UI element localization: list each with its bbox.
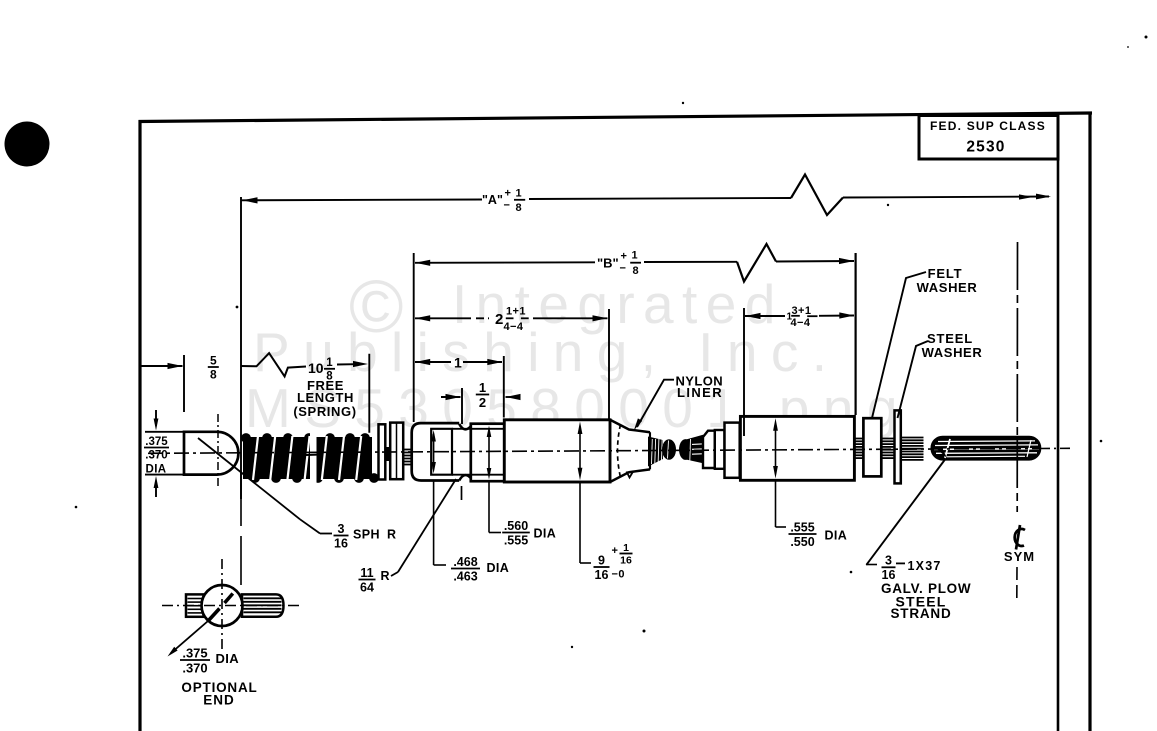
svg-text:.550: .550 — [790, 535, 814, 549]
dim 1-3/4 arrow left — [746, 313, 761, 319]
washer 2 — [390, 423, 403, 480]
leader felt washer — [872, 272, 926, 418]
svg-text:16: 16 — [595, 568, 609, 582]
svg-text:−: − — [504, 200, 510, 212]
svg-text:R: R — [381, 569, 391, 583]
dim B line mid — [644, 261, 737, 263]
label .560/.555 DIA — [489, 532, 501, 534]
svg-text:.560: .560 — [504, 519, 528, 533]
svg-text:STEEL: STEEL — [927, 331, 973, 346]
svg-text:DIA: DIA — [146, 464, 167, 476]
dim 9/16 arrows — [579, 430, 581, 472]
dim A line left — [241, 199, 482, 202]
svg-text:Publishing, Inc.: Publishing, Inc. — [253, 321, 840, 383]
dim .375 arrow top — [155, 410, 157, 426]
dim B extension left — [413, 253, 415, 422]
svg-text:"B": "B" — [597, 256, 619, 271]
punch-hole dot — [5, 122, 50, 167]
svg-text:16: 16 — [334, 536, 348, 550]
svg-text:.463: .463 — [453, 569, 477, 583]
SYM centerline upper — [1016, 242, 1018, 512]
svg-text:LENGTH: LENGTH — [297, 390, 354, 405]
svg-text:+: + — [505, 188, 511, 200]
felt washer — [863, 418, 881, 476]
svg-text:1: 1 — [454, 354, 462, 370]
taper bottom — [610, 469, 650, 482]
taper end edge — [649, 432, 651, 469]
ball vertical centerline — [217, 414, 219, 488]
dim A arrow right second — [1019, 194, 1033, 199]
title box — [919, 116, 1058, 160]
cable strand — [932, 437, 1041, 460]
dim B break zigzag — [737, 244, 776, 282]
svg-text:END: END — [203, 693, 235, 708]
svg-text:1: 1 — [516, 187, 522, 199]
dim 10-1/8 extension right — [368, 354, 370, 433]
border top — [139, 113, 1093, 122]
svg-text:8: 8 — [210, 367, 217, 381]
label .555/.550 DIA — [776, 526, 787, 528]
right swage cone — [679, 439, 692, 460]
right collar step 1 — [703, 431, 715, 468]
detail leader — [171, 621, 209, 654]
dim A arrow right — [1036, 194, 1051, 200]
dim 5/8 arrow — [168, 363, 183, 369]
taper hidden dash arc — [618, 425, 621, 478]
svg-text:5: 5 — [210, 353, 217, 367]
leader .555 below part — [775, 481, 777, 528]
right collar step 3 — [725, 423, 740, 478]
svg-text:64: 64 — [360, 580, 374, 594]
svg-text:1: 1 — [326, 357, 333, 369]
svg-text:1+1: 1+1 — [506, 306, 526, 318]
svg-text:3: 3 — [885, 554, 892, 568]
dim 1-3/4 arrow right — [839, 312, 854, 318]
svg-text:WASHER: WASHER — [917, 280, 978, 295]
dim 1-3/4 extension left over part — [743, 308, 745, 436]
thread hatch 1 — [856, 438, 864, 440]
detail ball slash — [225, 594, 233, 604]
main centerline — [148, 448, 1040, 453]
dim 1/2 arrow right outside — [506, 396, 520, 398]
dim A extension line — [240, 197, 242, 499]
svg-text:FELT: FELT — [928, 266, 963, 281]
svg-text:(SPRING): (SPRING) — [293, 404, 356, 419]
thread hatch 3 — [902, 437, 924, 439]
svg-text:2: 2 — [495, 311, 503, 328]
detail left threaded stud — [186, 594, 204, 616]
svg-text:DIA: DIA — [487, 561, 510, 575]
svg-text:1X37: 1X37 — [908, 559, 942, 573]
svg-text:DIA: DIA — [534, 527, 557, 541]
dim B line left — [415, 261, 595, 264]
thread hatch 2 — [883, 438, 895, 440]
dim .560 arrows — [488, 434, 490, 470]
svg-text:9: 9 — [598, 553, 605, 567]
dim .375 tick bottom — [145, 474, 183, 476]
dim 1/2 arrow left outside — [441, 396, 461, 398]
svg-text:1: 1 — [623, 542, 629, 554]
border right inner — [1057, 116, 1060, 731]
nut cup body — [412, 423, 460, 480]
label 9/16 +1/16 -0 — [580, 562, 591, 564]
dim B arrow right — [839, 258, 854, 264]
svg-text:−0: −0 — [612, 569, 625, 581]
svg-text:DIA: DIA — [216, 651, 240, 666]
svg-text:10: 10 — [308, 360, 324, 376]
svg-text:.370: .370 — [145, 449, 167, 461]
label 3/16-1X37 — [866, 564, 877, 566]
svg-text:.555: .555 — [790, 520, 814, 534]
detail right threaded stud — [242, 594, 284, 616]
dim 5/8 line — [141, 365, 183, 367]
dim .555 arrows — [775, 427, 777, 470]
svg-text:3: 3 — [338, 522, 345, 536]
svg-text:FED. SUP CLASS: FED. SUP CLASS — [930, 119, 1046, 133]
detail ball circle — [202, 585, 243, 626]
svg-text:R: R — [387, 528, 397, 542]
dim A arrow left — [243, 197, 258, 203]
svg-text:.555: .555 — [504, 533, 528, 547]
dim 2-1/4 arrow left — [415, 315, 430, 321]
leader 9/16 below part — [579, 482, 581, 563]
svg-text:STRAND: STRAND — [890, 606, 951, 621]
dim .468 arrows — [433, 434, 435, 469]
SYM centerline symbol — [1015, 525, 1025, 550]
leader 11/64 R — [391, 572, 398, 576]
dim 1/2 extension left — [461, 388, 463, 424]
svg-text:.375: .375 — [182, 645, 207, 660]
border left — [138, 120, 141, 731]
leader 3/16 SPH R — [198, 438, 300, 519]
dim 1-3/4 line right — [819, 315, 854, 317]
steel washer — [895, 410, 901, 483]
svg-text:4−4: 4−4 — [791, 317, 811, 329]
taper bottom notch — [627, 471, 634, 478]
svg-text:LINER: LINER — [677, 385, 723, 400]
dim 1 line left — [415, 361, 451, 363]
dim 10-1/8 line with break — [241, 353, 306, 376]
svg-text:11: 11 — [360, 566, 373, 580]
detail vertical centerline — [221, 559, 223, 651]
svg-text:"A": "A" — [482, 193, 503, 207]
border right outer — [1088, 114, 1091, 731]
leader galv strand — [866, 460, 945, 565]
dim .375 tick top — [145, 431, 183, 433]
leader steel washer — [898, 341, 929, 418]
dim B arrow left — [415, 260, 430, 266]
svg-text:+: + — [612, 545, 618, 557]
SYM centerline lower — [1016, 567, 1018, 599]
left swage cone — [648, 437, 663, 467]
leader ball to optional end — [240, 471, 242, 526]
neck bottom — [459, 475, 471, 480]
detail horizontal centerline — [162, 605, 303, 607]
svg-text:.468: .468 — [453, 555, 477, 569]
dim A break zigzag — [791, 175, 843, 216]
mid cylinder bore lines — [452, 428, 504, 430]
big right cylinder — [740, 416, 854, 480]
dim 1 arrow right — [487, 359, 502, 365]
svg-text:2530: 2530 — [966, 139, 1005, 156]
svg-text:8: 8 — [516, 202, 522, 214]
leader .468 below part — [433, 480, 435, 565]
svg-text:1: 1 — [479, 380, 486, 395]
svg-text:SPH: SPH — [353, 528, 380, 542]
centerline after strand — [1040, 447, 1072, 449]
neck top — [459, 424, 471, 429]
right collar step 2 — [715, 430, 725, 469]
dim 2-1/4 arrow right — [593, 315, 608, 321]
svg-text:WASHER: WASHER — [922, 345, 983, 360]
dim 1 arrow left — [415, 359, 430, 365]
label .468/.463 DIA — [434, 564, 446, 566]
scan specks — [1145, 36, 1148, 39]
dim A line right — [843, 197, 1049, 198]
dim 2-1/4 line right — [533, 317, 608, 319]
spring wire end blob — [385, 447, 391, 461]
svg-text:−: − — [620, 263, 626, 275]
svg-text:DIA: DIA — [825, 529, 848, 543]
spring coil — [243, 437, 372, 479]
svg-text:1: 1 — [632, 250, 638, 262]
svg-text:+: + — [621, 251, 627, 263]
svg-text:2: 2 — [479, 395, 486, 410]
washer 1 — [379, 424, 386, 479]
dim 1-3/4 line left — [745, 315, 785, 317]
svg-text:4−4: 4−4 — [504, 321, 524, 333]
washer 2 inner line — [396, 423, 398, 479]
big left cylinder — [504, 420, 610, 482]
svg-text:SYM: SYM — [1004, 549, 1035, 564]
dim B line right — [776, 260, 854, 263]
dim 10-1/8 arrow right — [337, 363, 355, 365]
dim 5/8 extension — [183, 355, 185, 412]
dim 1 extension right — [503, 356, 505, 418]
svg-text:.375: .375 — [145, 436, 168, 448]
thread hatch before nut — [404, 449, 412, 451]
dim .375 arrow bottom — [155, 481, 157, 497]
dim A line mid — [529, 198, 791, 199]
svg-text:8: 8 — [633, 265, 639, 277]
dim B extension right — [854, 253, 856, 415]
svg-text:.370: .370 — [182, 660, 207, 675]
dim 1 line right — [463, 361, 502, 363]
leader .560 below part — [488, 481, 490, 533]
svg-text:16: 16 — [620, 555, 632, 567]
ball end body — [184, 432, 238, 475]
taper top — [610, 420, 650, 432]
dim 2-1/4 line left — [415, 317, 471, 319]
nut inner bore — [431, 429, 452, 475]
neck right edge — [470, 426, 472, 478]
dim 2-1/4 extension right — [608, 309, 610, 419]
leader nylon liner — [637, 380, 674, 427]
mid cylinder — [471, 424, 505, 482]
